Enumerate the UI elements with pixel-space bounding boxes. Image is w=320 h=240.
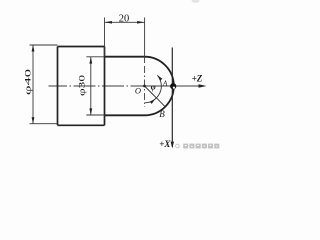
svg-text:+X: +X (159, 139, 171, 149)
svg-text:B: B (159, 109, 165, 119)
svg-text:φ30: φ30 (77, 75, 87, 96)
svg-text:+Z: +Z (192, 74, 203, 84)
svg-text:A: A (162, 79, 168, 87)
svg-text:φ: φ (151, 82, 156, 92)
svg-text:20: 20 (119, 14, 130, 25)
svg-text:O: O (135, 86, 141, 96)
svg-text:φ40: φ40 (23, 69, 33, 95)
